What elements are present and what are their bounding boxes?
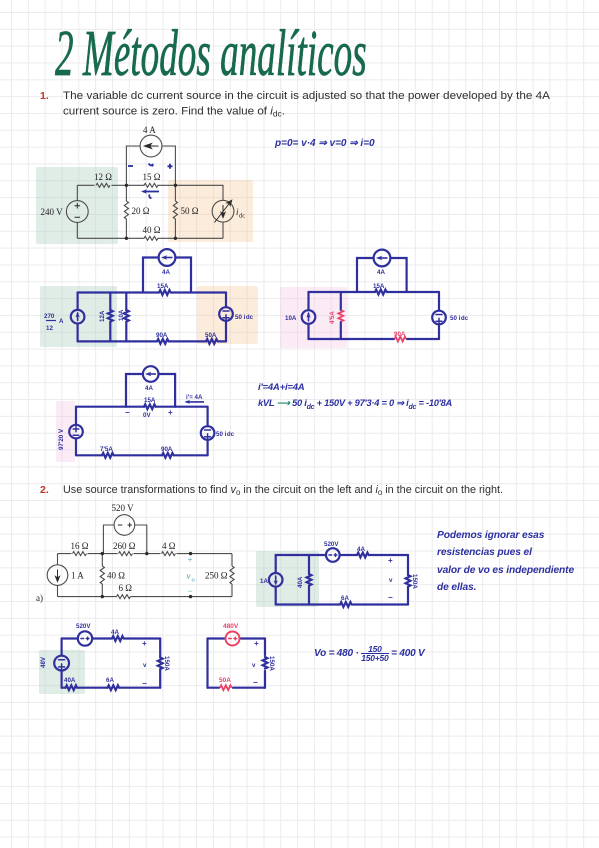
svg-text:40A: 40A <box>64 677 76 684</box>
svg-text:48V: 48V <box>40 656 47 668</box>
svg-text:150A: 150A <box>411 574 418 589</box>
svg-text:The variable dc current source: The variable dc current source in the ci… <box>63 90 551 102</box>
svg-text:6A: 6A <box>341 595 349 602</box>
svg-text:−: − <box>253 678 258 687</box>
svg-text:50 Ω: 50 Ω <box>181 206 199 216</box>
svg-text:480V: 480V <box>223 623 239 630</box>
svg-text:a): a) <box>36 593 43 603</box>
svg-text:4A: 4A <box>377 269 385 276</box>
svg-text:6A: 6A <box>106 677 114 684</box>
svg-text:50 i dc: 50 i dc <box>216 431 235 438</box>
svg-text:+: + <box>188 555 193 565</box>
svg-text:A: A <box>59 318 64 325</box>
svg-text:−: − <box>188 586 193 596</box>
svg-text:+: + <box>168 408 173 417</box>
svg-text:0V: 0V <box>143 412 151 419</box>
svg-text:40 Ω: 40 Ω <box>143 225 161 235</box>
svg-text:1.: 1. <box>40 90 49 102</box>
svg-text:1 A: 1 A <box>71 571 84 581</box>
svg-text:dc: dc <box>239 213 245 220</box>
svg-text:90A: 90A <box>161 446 173 453</box>
svg-text:270: 270 <box>44 313 55 320</box>
svg-text:4A: 4A <box>111 629 119 636</box>
svg-text:o: o <box>192 577 196 584</box>
svg-text:−: − <box>388 593 393 602</box>
svg-text:50A: 50A <box>205 332 217 339</box>
svg-text:20 Ω: 20 Ω <box>132 206 150 216</box>
svg-text:i'= 4A: i'= 4A <box>186 394 203 401</box>
svg-text:15A: 15A <box>373 283 385 290</box>
svg-text:4 A: 4 A <box>143 125 156 135</box>
svg-text:40A: 40A <box>297 576 304 588</box>
svg-text:v: v <box>187 571 191 581</box>
svg-text:50 i dc: 50 i dc <box>450 315 469 322</box>
svg-text:1A: 1A <box>260 578 268 585</box>
svg-text:520V: 520V <box>324 541 339 548</box>
svg-text:260 Ω: 260 Ω <box>113 541 136 551</box>
svg-text:15A: 15A <box>144 397 156 404</box>
svg-text:10A: 10A <box>285 315 297 322</box>
svg-text:250 Ω: 250 Ω <box>205 571 228 581</box>
svg-text:current source is zero. Find t: current source is zero. Find the value o… <box>63 106 285 119</box>
svg-text:50 i dc: 50 i dc <box>235 314 254 321</box>
svg-text:4A: 4A <box>145 385 153 392</box>
svg-text:50A: 50A <box>219 677 231 684</box>
svg-text:90A: 90A <box>394 331 406 338</box>
svg-text:520V: 520V <box>76 623 91 630</box>
svg-text:10A: 10A <box>118 309 125 321</box>
svg-text:+: + <box>388 556 393 565</box>
svg-text:240 V: 240 V <box>41 207 64 217</box>
svg-text:v: v <box>389 577 393 584</box>
svg-text:−: − <box>125 408 130 417</box>
svg-text:90A: 90A <box>156 332 168 339</box>
svg-text:v: v <box>143 662 147 669</box>
svg-text:Use source transformations to: Use source transformations to find vo in… <box>63 484 503 497</box>
svg-text:7'5A: 7'5A <box>100 446 113 453</box>
svg-text:4A: 4A <box>357 546 365 553</box>
svg-text:150A: 150A <box>163 656 170 671</box>
svg-text:12A: 12A <box>99 310 106 322</box>
svg-text:+: + <box>254 639 259 648</box>
svg-text:150A: 150A <box>268 656 275 671</box>
svg-text:6 Ω: 6 Ω <box>119 583 133 593</box>
svg-text:16 Ω: 16 Ω <box>71 541 89 551</box>
svg-text:4 Ω: 4 Ω <box>162 541 176 551</box>
svg-text:−: − <box>142 679 147 688</box>
svg-text:520 V: 520 V <box>112 503 135 513</box>
svg-text:15 Ω: 15 Ω <box>143 172 161 182</box>
svg-text:12: 12 <box>46 325 53 332</box>
svg-text:4'5A: 4'5A <box>329 311 336 324</box>
svg-text:40 Ω: 40 Ω <box>107 571 125 581</box>
svg-text:+: + <box>142 639 147 648</box>
svg-text:4A: 4A <box>162 269 170 276</box>
svg-text:97'20 V: 97'20 V <box>58 428 65 450</box>
svg-text:12 Ω: 12 Ω <box>94 172 112 182</box>
svg-text:2.: 2. <box>40 484 49 496</box>
svg-text:v: v <box>252 662 256 669</box>
svg-text:15A: 15A <box>157 283 169 290</box>
